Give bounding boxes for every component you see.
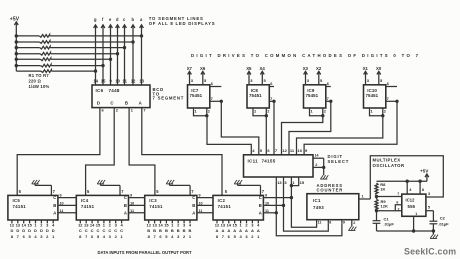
svg-text:B: B [183,228,186,233]
svg-text:12: 12 [146,222,151,227]
svg-text:15: 15 [300,180,305,185]
node R2-segment junction [131,40,134,43]
svg-text:74151: 74151 [81,204,95,209]
svg-text:A: A [124,210,127,215]
wire IC10 pins6-7 to IC11 [304,101,397,155]
node 555 pin8 supply [418,180,421,183]
IC1 pin1 clock input wire [359,198,371,200]
wire select bus IC3-IC2 [197,197,213,199]
svg-text:B: B [147,228,150,233]
IC10 pins 1 and 2 tied [370,108,383,116]
svg-text:B: B [177,228,180,233]
svg-text:DATA INPUTS FROM PARALLEL OUTP: DATA INPUTS FROM PARALLEL OUTPUT PORT [98,250,193,255]
junction +5V rail [15,34,18,37]
svg-text:C: C [110,101,113,106]
svg-text:MULTIPLEX: MULTIPLEX [373,158,401,163]
svg-text:7: 7 [387,96,389,101]
svg-text:14: 14 [21,222,26,227]
svg-text:D: D [28,228,31,233]
wire IC9 pins1-2 to IC11 [282,116,323,155]
svg-text:g: g [94,17,97,22]
wire IC10 pins1-2 to IC11 [297,116,383,155]
svg-text:C: C [97,228,100,233]
svg-text:74151: 74151 [13,204,27,209]
svg-text:12: 12 [78,222,83,227]
555 pin4 wire [406,181,408,194]
svg-text:1K: 1K [380,187,385,192]
svg-text:12K: 12K [381,204,388,209]
wire IC6 pin2 C to IC4 pin5 [86,108,115,196]
svg-text:9: 9 [265,194,267,198]
ground IC5 strobe pin7 [32,180,35,184]
svg-text:13: 13 [16,222,21,227]
IC8 pins 1 and 2 tied [253,108,266,116]
wire IC11 pins 1-15 tied [291,182,298,186]
svg-text:D: D [97,101,100,106]
svg-text:C: C [108,228,111,233]
node R3-segment junction [123,46,126,49]
resistor R9 12K [376,197,378,200]
IC10 pins 6 and 7 tied [386,86,397,88]
svg-text:15: 15 [27,222,32,227]
multiplexer IC4 74151 [76,195,128,220]
svg-text:10: 10 [130,201,134,205]
capacitor C1 .01uF [376,211,378,221]
ground IC2 strobe pin7 [234,180,237,184]
svg-text:C: C [53,195,56,200]
node R5-segment junction [109,58,112,61]
svg-text:C: C [124,195,127,200]
svg-text:.01µF: .01µF [438,221,449,226]
555 pin8 wire [419,181,421,194]
svg-text:11: 11 [199,209,203,213]
svg-text:X5: X5 [246,66,252,71]
svg-text:11: 11 [123,78,128,83]
svg-text:DIGIT DRIVES TO COMMON CATHODE: DIGIT DRIVES TO COMMON CATHODES OF DIGIT… [191,53,420,58]
svg-text:11: 11 [60,209,64,213]
svg-text:2: 2 [398,207,400,211]
svg-text:IC5: IC5 [13,198,21,203]
wire 555 pin6 jog to pin2 net [395,205,402,211]
svg-text:6: 6 [396,201,398,205]
svg-text:IC11: IC11 [248,158,259,163]
svg-text:C: C [192,195,195,200]
svg-text:X7: X7 [187,66,193,71]
resistor R3 [16,47,40,49]
svg-text:12: 12 [215,222,220,227]
ground oscillator [432,231,434,235]
resistor R8 1K [375,183,378,194]
svg-text:A: A [233,228,236,233]
svg-text:b: b [131,17,134,22]
wire oscillator ground rail [377,230,434,232]
svg-text:A: A [227,228,230,233]
svg-text:14: 14 [158,222,163,227]
svg-text:7: 7 [143,108,145,113]
wire IC8 pins6-7 to IC11 [273,101,275,155]
555 pin1 to rail [413,216,415,231]
svg-text:D: D [10,228,13,233]
svg-text:B: B [153,228,156,233]
svg-text:13: 13 [277,180,282,185]
svg-text:7: 7 [397,192,399,196]
wire IC9 pins6-7 to IC11 [289,101,331,155]
IC U11 74155 decoder [244,155,314,177]
svg-text:B: B [125,101,128,106]
svg-text:+5V: +5V [420,168,428,173]
wire 555 pin3 output to IC1 clock loop [370,156,443,199]
svg-text:1: 1 [415,212,417,216]
resistor R4 [16,53,40,55]
wire select bus IC4-IC3 [129,197,145,199]
svg-text:+5V: +5V [10,16,20,22]
svg-text:10: 10 [265,201,269,205]
svg-text:13: 13 [221,222,226,227]
svg-text:C: C [259,195,262,200]
ground IC4 strobe pin7 [97,180,100,184]
svg-text:C: C [85,228,88,233]
svg-text:IC6: IC6 [96,88,104,93]
svg-text:14: 14 [93,78,98,83]
svg-text:15: 15 [232,222,237,227]
svg-text:74151: 74151 [218,204,232,209]
IC2 data input pins [216,220,218,223]
svg-text:A: A [221,228,224,233]
IC11 bottom pins 13 3 1 15 [275,177,277,182]
IC3 data input pins [148,220,150,223]
wire +5V rail [377,180,427,182]
svg-text:A: A [251,228,254,233]
IC7 pins 1 and 2 tied [194,108,207,116]
wire select bus IC5-IC4 [58,197,76,199]
resistor R2 [16,41,39,43]
svg-text:SELECT: SELECT [328,159,350,164]
svg-text:X2: X2 [316,66,322,71]
svg-text:9: 9 [130,194,132,198]
svg-text:74151: 74151 [149,204,163,209]
svg-text:7: 7 [327,96,329,101]
svg-text:7 SEGMENT: 7 SEGMENT [153,96,185,101]
node R6-segment junction [101,64,104,67]
junction +5V rail [15,40,18,43]
svg-text:9: 9 [60,194,62,198]
node R4-segment junction [116,52,119,55]
svg-text:A: A [239,228,242,233]
IC9 pins 6 and 7 tied [326,86,331,88]
svg-text:B: B [53,203,56,208]
wire IC6 pin7 A to IC2 pin5 [142,108,222,196]
svg-text:IC2: IC2 [218,198,226,203]
svg-text:R1 TO R7: R1 TO R7 [29,73,50,78]
svg-text:7: 7 [270,96,272,101]
svg-text:220 Ω: 220 Ω [29,79,42,84]
IC11 pin2 stub [313,166,324,168]
node 555 pin4 supply [406,180,409,183]
svg-text:A: A [139,101,142,106]
svg-text:IC1: IC1 [313,198,321,203]
svg-text:14: 14 [315,154,319,158]
ground IC11 pin2 [323,167,325,175]
svg-text:X6: X6 [200,66,206,71]
svg-text:B: B [171,228,174,233]
svg-text:D: D [22,228,25,233]
IC8 pins 6 and 7 tied [269,86,274,88]
svg-text:B: B [259,203,262,208]
wire select B: IC11 pin3 to IC1 pin8 [284,182,329,231]
wire IC7 pins6-7 to IC11 [221,101,258,155]
svg-text:X1: X1 [363,66,369,71]
svg-text:8: 8 [422,188,424,192]
svg-text:13: 13 [152,222,157,227]
svg-text:7493: 7493 [313,205,324,210]
svg-text:A: A [259,210,262,215]
svg-text:A: A [192,210,195,215]
svg-text:10: 10 [115,78,120,83]
svg-text:D: D [40,228,43,233]
svg-text:1: 1 [362,195,364,199]
IC1 bottom pins 11 8 9 [316,220,318,224]
svg-text:13: 13 [139,78,144,83]
node R9-C1 junction to 555 pin2 [376,210,378,211]
svg-text:C: C [79,228,82,233]
IC4 data input pins [79,220,81,223]
svg-text:D: D [46,228,49,233]
node select C bus junction [290,196,293,199]
driver IC10 75451 [364,85,386,108]
junction +5V rail [15,64,18,67]
svg-text:15: 15 [164,222,169,227]
svg-text:D: D [34,228,37,233]
node select B bus junction [282,204,285,207]
wire select A: IC11 pin13 to IC1 pin9 [276,182,342,236]
svg-text:B: B [189,228,192,233]
wire IC7 pins1-2 to IC11 [207,116,251,155]
node select A bus junction [275,211,278,214]
svg-text:OF ALL 8 LED DISPLAYS: OF ALL 8 LED DISPLAYS [149,21,216,26]
IC7 pins 6 and 7 tied [210,86,222,88]
svg-text:10: 10 [199,201,203,205]
svg-text:D: D [52,228,55,233]
svg-text:IC4: IC4 [81,198,89,203]
svg-text:d: d [116,17,119,22]
wire IC6 pin6 D to IC5 pin5 [17,108,100,196]
wire IC8 pins1-2 to IC11 [265,116,267,155]
svg-text:8: 8 [329,220,331,224]
svg-text:.01µF: .01µF [384,222,395,227]
svg-text:10: 10 [60,201,64,205]
node R8-R9 junction to 555 pin7 [375,195,378,198]
svg-text:75451: 75451 [249,93,262,98]
svg-text:9: 9 [199,194,201,198]
svg-text:14: 14 [90,222,95,227]
svg-text:10: 10 [298,148,303,153]
resistor R5 [16,58,40,60]
svg-text:X4: X4 [260,66,266,71]
multiplexer IC3 74151 [145,195,197,220]
svg-text:C: C [102,228,105,233]
node R7-segment junction [94,69,97,72]
svg-text:A: A [245,228,248,233]
svg-text:D: D [16,228,19,233]
svg-text:SeekIC.com: SeekIC.com [404,246,456,256]
svg-text:IC3: IC3 [149,198,157,203]
svg-text:12: 12 [10,222,15,227]
svg-text:OSCILLATOR: OSCILLATOR [373,163,405,168]
svg-text:555: 555 [408,204,416,209]
node R1-segment junction [140,34,143,37]
svg-text:X3: X3 [303,66,309,71]
resistor R1 [16,35,39,37]
svg-text:74155: 74155 [262,158,276,163]
wire select C: IC11 pins1-15 to IC1 pin11 [291,186,316,228]
IC1 pin2 ground [351,220,353,227]
svg-text:5: 5 [428,206,430,210]
svg-text:12: 12 [282,148,287,153]
svg-text:C: C [114,228,117,233]
svg-text:14: 14 [227,222,232,227]
svg-text:75451: 75451 [366,93,379,98]
driver IC7 75451 [188,85,210,108]
svg-text:2: 2 [315,163,317,167]
svg-text:12: 12 [131,78,136,83]
IC U1 7493 address counter [307,194,359,220]
capacitor C2 .01uF [430,220,438,222]
svg-text:1/4W 10%: 1/4W 10% [29,84,50,89]
svg-text:X0: X0 [376,66,382,71]
junction +5V rail [15,46,18,49]
svg-text:A: A [216,228,219,233]
svg-text:75451: 75451 [190,93,203,98]
svg-text:B: B [192,203,195,208]
IC U6 7448 BCD to 7-segment decoder [92,85,150,108]
node C2 ground junction [432,229,435,232]
driver IC8 75451 [247,85,269,108]
svg-text:9: 9 [343,220,345,224]
svg-text:11: 11 [265,209,269,213]
svg-text:13: 13 [84,222,89,227]
svg-text:75451: 75451 [306,93,319,98]
junction +5V rail [15,58,18,61]
timer U12 555 [402,194,426,216]
svg-text:C2: C2 [440,216,446,221]
svg-text:15: 15 [96,222,101,227]
svg-text:A: A [257,228,260,233]
svg-text:15: 15 [101,78,106,83]
svg-text:3: 3 [428,192,430,196]
svg-text:C: C [91,228,94,233]
wire IC6 pin1 B to IC3 pin5 [129,108,155,196]
svg-text:B: B [159,228,162,233]
svg-text:IC12: IC12 [406,197,416,202]
resistor R6 [16,65,40,67]
IC11 pin14 digit select stub [313,157,324,159]
wire select bus IC2 to counter risers [263,197,291,199]
555 pin5 to C2 [426,210,434,212]
IC9 pins 1 and 2 tied [310,108,323,116]
svg-text:B: B [124,203,127,208]
multiplexer IC2 74151 [213,195,263,220]
svg-text:7: 7 [211,96,213,101]
IC5 data input pins [11,220,13,223]
resistor R7 [16,70,41,72]
svg-text:2: 2 [353,221,355,225]
junction +5V rail [15,52,18,55]
svg-text:B: B [165,228,168,233]
svg-text:COUNTER: COUNTER [317,188,344,193]
ground IC3 strobe pin7 [166,180,169,184]
multiplexer IC5 74151 [8,195,58,220]
svg-text:A: A [53,210,56,215]
svg-text:11: 11 [130,209,134,213]
svg-text:11: 11 [318,220,322,224]
svg-text:C: C [120,228,123,233]
svg-text:7448: 7448 [109,88,120,93]
driver IC9 75451 [304,85,326,108]
